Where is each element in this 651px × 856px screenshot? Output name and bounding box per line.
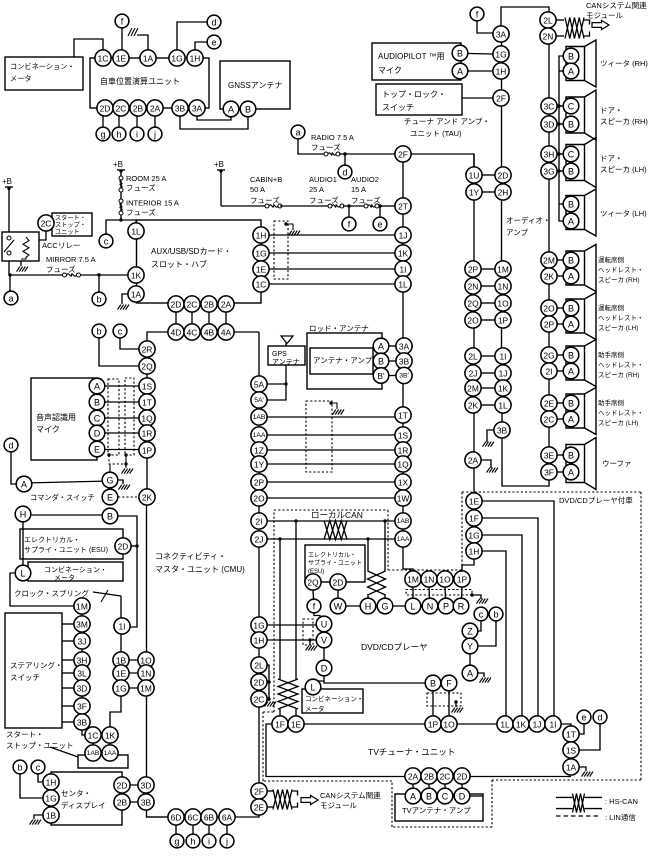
svg-text:A: A — [568, 367, 574, 377]
svg-text:エレクトリカル・: エレクトリカル・ — [24, 536, 80, 544]
svg-text:(ESU): (ESU) — [308, 569, 324, 575]
svg-text:B: B — [568, 52, 574, 62]
svg-text:E: E — [94, 445, 100, 455]
svg-text:1F: 1F — [469, 514, 479, 524]
svg-text:2D: 2D — [171, 300, 182, 310]
svg-text:1Y: 1Y — [469, 188, 480, 198]
svg-text:フューズ: フューズ — [311, 142, 341, 152]
svg-text:D: D — [94, 429, 101, 439]
svg-text:スピーカ (LH): スピーカ (LH) — [598, 419, 638, 427]
svg-text:ツィータ (LH): ツィータ (LH) — [600, 209, 647, 218]
svg-text:1E: 1E — [116, 54, 127, 64]
svg-text:2D: 2D — [117, 781, 128, 791]
svg-text:コンビネーション・: コンビネーション・ — [10, 62, 75, 71]
svg-text:2N: 2N — [543, 32, 554, 42]
svg-text:音声認識用: 音声認識用 — [36, 412, 76, 422]
svg-text:: HS-CAN: : HS-CAN — [605, 797, 638, 806]
svg-text:1Q: 1Q — [397, 460, 409, 470]
svg-text:25 A: 25 A — [309, 185, 324, 194]
svg-text:2B: 2B — [133, 104, 144, 114]
svg-text:B: B — [568, 351, 574, 361]
svg-text:ヘッドレスト・: ヘッドレスト・ — [598, 314, 644, 322]
svg-text:d: d — [342, 168, 347, 178]
svg-text:1AA: 1AA — [253, 432, 266, 439]
svg-text:4C: 4C — [187, 328, 198, 338]
svg-text:チューナ アンド アンプ・: チューナ アンド アンプ・ — [404, 117, 490, 126]
svg-text:3B: 3B — [399, 357, 410, 367]
svg-text:2O: 2O — [543, 304, 555, 314]
svg-text:+B: +B — [2, 177, 12, 186]
svg-text:ストップ・: ストップ・ — [55, 222, 86, 229]
svg-text:1L: 1L — [498, 401, 508, 411]
svg-text:3G: 3G — [543, 167, 554, 177]
svg-text:D: D — [459, 792, 466, 802]
svg-text:1X: 1X — [398, 478, 409, 488]
svg-text:ローカルCAN: ローカルCAN — [311, 510, 363, 520]
svg-text:2I: 2I — [546, 367, 553, 377]
svg-text:1T: 1T — [566, 730, 576, 740]
svg-text:b: b — [17, 763, 22, 773]
svg-text:ユニット (TAU): ユニット (TAU) — [410, 129, 462, 138]
svg-text:A: A — [568, 468, 574, 478]
svg-text:E: E — [107, 493, 113, 503]
svg-text:RADIO 7.5 A: RADIO 7.5 A — [311, 133, 354, 142]
svg-text:2P: 2P — [254, 478, 265, 488]
svg-text:2M: 2M — [543, 256, 555, 266]
svg-text:1G: 1G — [253, 621, 264, 631]
svg-text:メータ: メータ — [54, 573, 75, 582]
svg-text:1K: 1K — [498, 384, 509, 394]
svg-text:3B: 3B — [77, 718, 88, 728]
svg-text:GPS: GPS — [272, 351, 287, 358]
svg-text:1B: 1B — [116, 656, 127, 666]
svg-text:トップ・ロック・: トップ・ロック・ — [382, 90, 446, 99]
svg-text:6D: 6D — [171, 813, 182, 823]
svg-text:MIRROR 7.5 A: MIRROR 7.5 A — [46, 255, 96, 264]
svg-text:3M: 3M — [76, 620, 88, 630]
svg-text:1O: 1O — [497, 299, 509, 309]
svg-text:ユニット: ユニット — [55, 229, 80, 236]
svg-text:50 A: 50 A — [250, 185, 265, 194]
svg-text:2C: 2C — [116, 104, 127, 114]
svg-text:1H: 1H — [256, 231, 267, 241]
svg-text:B: B — [568, 256, 574, 266]
svg-text:助手席側: 助手席側 — [598, 350, 625, 359]
svg-text:2B: 2B — [204, 300, 215, 310]
svg-text:GNSSアンテナ: GNSSアンテナ — [228, 81, 282, 90]
svg-text:2H: 2H — [498, 188, 509, 198]
svg-text:ACCリレー: ACCリレー — [42, 241, 80, 250]
svg-text:1R: 1R — [142, 429, 153, 439]
svg-text:クロック・スプリング: クロック・スプリング — [14, 588, 89, 598]
svg-text:1H: 1H — [46, 778, 57, 788]
svg-text:1I: 1I — [550, 720, 557, 730]
svg-text:B': B' — [377, 371, 385, 381]
svg-text:i: i — [208, 837, 210, 847]
svg-text:3B': 3B' — [399, 373, 409, 380]
svg-text:2L: 2L — [468, 352, 478, 362]
svg-text:1AB: 1AB — [87, 750, 100, 757]
svg-text:N: N — [427, 602, 434, 612]
svg-text:1P: 1P — [428, 720, 439, 730]
svg-text:1E: 1E — [256, 265, 267, 275]
svg-text:1A: 1A — [566, 763, 577, 773]
svg-text:ROOM 25 A: ROOM 25 A — [126, 174, 166, 183]
svg-text:AUX/USB/SDカード・: AUX/USB/SDカード・ — [151, 247, 231, 256]
svg-text:2F: 2F — [398, 150, 408, 160]
svg-text:運転席側: 運転席側 — [598, 303, 625, 312]
svg-text:ドア・: ドア・ — [600, 154, 623, 163]
svg-text:U: U — [321, 620, 328, 630]
svg-text:a: a — [295, 128, 300, 138]
svg-text:1H: 1H — [190, 54, 201, 64]
svg-text:2D: 2D — [333, 578, 344, 588]
svg-text:マスタ・ユニット (CMU): マスタ・ユニット (CMU) — [155, 565, 245, 574]
svg-text:A: A — [568, 217, 574, 227]
svg-text:1P: 1P — [142, 446, 153, 456]
svg-text:1B: 1B — [46, 811, 57, 821]
svg-text:2F: 2F — [496, 94, 506, 104]
svg-text:5A': 5A' — [254, 397, 264, 404]
svg-text:1C: 1C — [256, 280, 267, 290]
svg-text:1K: 1K — [105, 731, 116, 741]
svg-text:1P: 1P — [498, 316, 509, 326]
svg-text:H: H — [365, 602, 372, 612]
svg-text:1E: 1E — [291, 720, 302, 730]
svg-text:スイッチ: スイッチ — [382, 103, 414, 112]
svg-text:スタート・: スタート・ — [6, 730, 44, 739]
svg-text:3A: 3A — [496, 30, 507, 40]
svg-text:A: A — [467, 669, 473, 679]
svg-text:: LIN通信: : LIN通信 — [605, 812, 636, 822]
svg-text:2C: 2C — [187, 300, 198, 310]
svg-text:P: P — [443, 602, 449, 612]
svg-text:3D: 3D — [544, 120, 555, 130]
svg-text:3F: 3F — [544, 468, 554, 478]
svg-text:スピーカ (LH): スピーカ (LH) — [600, 165, 647, 174]
svg-text:1H: 1H — [469, 547, 480, 557]
svg-text:1J: 1J — [499, 369, 508, 379]
svg-text:1K: 1K — [516, 720, 527, 730]
svg-text:4D: 4D — [171, 328, 182, 338]
svg-text:1G: 1G — [255, 249, 266, 259]
svg-text:1W: 1W — [397, 494, 410, 504]
svg-text:3L: 3L — [77, 669, 87, 679]
svg-text:h: h — [116, 130, 121, 140]
svg-text:G: G — [381, 602, 388, 612]
svg-text:1AB: 1AB — [253, 414, 266, 421]
svg-text:2D: 2D — [100, 104, 111, 114]
svg-text:C: C — [442, 792, 449, 802]
svg-text:CABIN+B: CABIN+B — [250, 175, 282, 184]
svg-text:2D: 2D — [457, 772, 468, 782]
svg-text:B: B — [245, 105, 251, 115]
svg-text:1A: 1A — [131, 290, 142, 300]
svg-text:A: A — [21, 480, 27, 490]
svg-text:フューズ: フューズ — [126, 183, 156, 193]
svg-text:2C: 2C — [254, 695, 265, 705]
svg-text:B: B — [568, 167, 574, 177]
svg-text:アンプ: アンプ — [506, 228, 528, 237]
svg-text:2Q: 2Q — [467, 299, 479, 309]
svg-text:g: g — [174, 837, 179, 847]
svg-text:AUDIOPILOT ™用: AUDIOPILOT ™用 — [378, 52, 445, 61]
svg-text:CANシステム関連: CANシステム関連 — [320, 790, 381, 800]
svg-text:b: b — [96, 295, 101, 305]
svg-text:スピーカ (LH): スピーカ (LH) — [598, 324, 638, 332]
svg-text:1R: 1R — [398, 446, 409, 456]
svg-text:スタート・: スタート・ — [55, 214, 86, 222]
svg-text:F: F — [446, 679, 452, 689]
svg-text:2D: 2D — [118, 542, 129, 552]
svg-text:C: C — [568, 102, 575, 112]
svg-text:TVチューナ・ユニット: TVチューナ・ユニット — [368, 747, 455, 757]
svg-text:1O: 1O — [443, 720, 455, 730]
svg-text:2O: 2O — [467, 316, 479, 326]
svg-text:e: e — [211, 38, 216, 48]
svg-text:INTERIOR 15 A: INTERIOR 15 A — [126, 199, 179, 208]
svg-text:b: b — [493, 610, 498, 620]
svg-text:A: A — [568, 320, 574, 330]
svg-text:6A: 6A — [222, 813, 233, 823]
svg-text:c: c — [104, 237, 109, 247]
svg-text:コンビネーション・: コンビネーション・ — [305, 694, 363, 703]
svg-text:A: A — [568, 415, 574, 425]
svg-text:3D: 3D — [141, 781, 152, 791]
svg-text:j: j — [225, 837, 228, 847]
svg-text:ヘッドレスト・: ヘッドレスト・ — [598, 266, 644, 274]
svg-text:1M: 1M — [140, 684, 152, 694]
svg-text:1L: 1L — [398, 280, 408, 290]
svg-text:2Q: 2Q — [141, 362, 153, 372]
svg-text:h: h — [190, 837, 195, 847]
svg-text:1I: 1I — [500, 352, 507, 362]
svg-text:g: g — [100, 130, 105, 140]
svg-text:1G: 1G — [45, 794, 56, 804]
svg-text:L: L — [20, 569, 25, 579]
svg-text:A: A — [228, 105, 234, 115]
svg-text:1N: 1N — [141, 669, 152, 679]
svg-text:1I: 1I — [400, 265, 407, 275]
svg-text:コマンダ・スイッチ: コマンダ・スイッチ — [30, 493, 95, 502]
svg-text:2Q: 2Q — [307, 578, 319, 588]
svg-text:2J: 2J — [255, 535, 264, 545]
svg-text:15 A: 15 A — [351, 185, 366, 194]
svg-text:2C: 2C — [440, 772, 451, 782]
svg-text:1S: 1S — [566, 746, 577, 756]
svg-text:3B: 3B — [497, 426, 508, 436]
svg-text:モジュール: モジュール — [586, 11, 623, 20]
svg-text:2C: 2C — [41, 219, 52, 229]
svg-text:i: i — [136, 130, 138, 140]
svg-text:6C: 6C — [188, 813, 199, 823]
svg-text:A: A — [94, 382, 100, 392]
svg-text:1L: 1L — [131, 227, 141, 237]
svg-text:5A: 5A — [254, 380, 265, 390]
svg-text:1M: 1M — [497, 265, 509, 275]
svg-text:A: A — [568, 272, 574, 282]
svg-text:D: D — [321, 664, 328, 674]
svg-text:スイッチ: スイッチ — [10, 673, 40, 682]
svg-text:マイク: マイク — [378, 66, 402, 75]
svg-text:ロッド・アンテナ: ロッド・アンテナ — [309, 324, 369, 333]
svg-text:1S: 1S — [142, 382, 153, 392]
svg-text:A: A — [568, 67, 574, 77]
svg-text:2K: 2K — [142, 493, 153, 503]
svg-text:2R: 2R — [142, 345, 153, 355]
svg-text:フューズ: フューズ — [250, 195, 280, 205]
svg-text:1M: 1M — [76, 602, 88, 612]
svg-text:アンテナ・アンプ: アンテナ・アンプ — [313, 356, 373, 365]
svg-text:1T: 1T — [398, 411, 408, 421]
svg-text:B: B — [568, 399, 574, 409]
svg-text:2B: 2B — [424, 772, 435, 782]
svg-text:1G: 1G — [468, 531, 479, 541]
svg-text:B: B — [457, 49, 463, 59]
svg-text:2A: 2A — [408, 772, 419, 782]
svg-text:1I: 1I — [119, 622, 126, 632]
svg-text:2B: 2B — [117, 798, 128, 808]
svg-text:1A: 1A — [143, 54, 154, 64]
svg-text:ウーファ: ウーファ — [602, 459, 632, 468]
svg-text:3H: 3H — [544, 150, 555, 160]
svg-text:2M: 2M — [467, 384, 479, 394]
svg-text:1H: 1H — [496, 67, 507, 77]
svg-text:2F: 2F — [254, 787, 264, 797]
svg-text:スピーカ (RH): スピーカ (RH) — [598, 276, 640, 284]
svg-text:1J: 1J — [533, 720, 542, 730]
svg-text:4A: 4A — [221, 328, 232, 338]
svg-text:2G: 2G — [543, 351, 554, 361]
svg-text:ヘッドレスト・: ヘッドレスト・ — [598, 409, 644, 417]
svg-text:CANシステム関連: CANシステム関連 — [586, 0, 647, 10]
svg-text:2D: 2D — [254, 678, 265, 688]
svg-text:センタ・: センタ・ — [61, 789, 91, 798]
svg-text:エレクトリカル・: エレクトリカル・ — [308, 552, 356, 559]
svg-text:2A: 2A — [221, 300, 232, 310]
svg-text:ツィータ (RH): ツィータ (RH) — [600, 59, 648, 68]
svg-text:2P: 2P — [544, 320, 555, 330]
svg-text:B: B — [568, 451, 574, 461]
svg-text:2N: 2N — [468, 282, 479, 292]
svg-text:e: e — [581, 713, 586, 723]
svg-text:3H: 3H — [77, 656, 88, 666]
svg-text:A: A — [457, 67, 463, 77]
svg-text:1T: 1T — [142, 398, 152, 408]
svg-text:6B: 6B — [204, 813, 215, 823]
svg-text:R: R — [458, 602, 465, 612]
svg-text:C: C — [94, 414, 101, 424]
svg-text:オーディオ・: オーディオ・ — [506, 215, 550, 225]
svg-text:サプライ・ユニット: サプライ・ユニット — [308, 560, 362, 567]
svg-text:1O: 1O — [140, 656, 152, 666]
svg-text:1Z: 1Z — [254, 446, 264, 456]
svg-text:3J: 3J — [78, 637, 87, 647]
svg-text:ドア・: ドア・ — [600, 106, 623, 115]
svg-text:運転席側: 運転席側 — [598, 255, 625, 264]
svg-text:2K: 2K — [468, 401, 479, 411]
svg-text:アンテナ: アンテナ — [272, 358, 300, 366]
svg-text:サプライ・ユニット (ESU): サプライ・ユニット (ESU) — [24, 546, 108, 554]
svg-text:A: A — [410, 792, 416, 802]
svg-text:1F: 1F — [275, 720, 285, 730]
svg-text:2C: 2C — [544, 415, 555, 425]
svg-text:B: B — [107, 512, 113, 522]
svg-text:2E: 2E — [254, 803, 265, 813]
svg-text:1J: 1J — [399, 231, 408, 241]
svg-text:メータ: メータ — [10, 74, 32, 83]
svg-text:B: B — [94, 398, 100, 408]
svg-text:c: c — [36, 763, 41, 773]
svg-text:H: H — [20, 510, 27, 520]
svg-text:メータ: メータ — [305, 704, 325, 713]
svg-text:A: A — [378, 342, 384, 352]
svg-text:モジュール: モジュール — [320, 801, 357, 810]
svg-text:2A: 2A — [468, 456, 479, 466]
svg-text:C: C — [568, 150, 575, 160]
svg-text:+B: +B — [113, 160, 123, 169]
svg-text:マイク: マイク — [36, 425, 60, 434]
svg-text:ステアリング・: ステアリング・ — [10, 660, 63, 670]
svg-text:Y: Y — [467, 642, 473, 652]
svg-text:W: W — [334, 602, 343, 612]
svg-text:1AA: 1AA — [397, 536, 410, 543]
svg-text:スピーカ (RH): スピーカ (RH) — [600, 117, 648, 126]
svg-text:j: j — [153, 130, 156, 140]
svg-text:3B: 3B — [175, 104, 186, 114]
svg-text:d: d — [597, 713, 602, 723]
svg-text:2E: 2E — [544, 399, 555, 409]
svg-text:3A: 3A — [192, 104, 203, 114]
svg-text:2T: 2T — [398, 202, 408, 212]
svg-text:B: B — [430, 679, 436, 689]
svg-text:1S: 1S — [398, 431, 409, 441]
svg-text:ストップ・ユニット: ストップ・ユニット — [6, 741, 74, 750]
svg-text:1C: 1C — [98, 54, 109, 64]
svg-text:コネクティビティ・: コネクティビティ・ — [155, 552, 226, 561]
svg-text:1Y: 1Y — [254, 460, 265, 470]
svg-text:1N: 1N — [498, 282, 509, 292]
svg-text:d: d — [211, 18, 216, 28]
svg-text:3F: 3F — [77, 702, 87, 712]
svg-text:1P: 1P — [457, 575, 468, 585]
svg-text:2I: 2I — [256, 517, 263, 527]
svg-text:L: L — [310, 683, 315, 693]
svg-text:c: c — [118, 327, 123, 337]
svg-text:1M: 1M — [407, 575, 419, 585]
svg-text:3A: 3A — [399, 342, 410, 352]
svg-text:フューズ: フューズ — [46, 264, 76, 274]
svg-text:1Q: 1Q — [141, 414, 153, 424]
svg-text:V: V — [321, 636, 327, 646]
svg-text:コンビネーション・: コンビネーション・ — [44, 565, 107, 574]
svg-text:1N: 1N — [424, 575, 435, 585]
svg-text:B: B — [568, 120, 574, 130]
svg-text:ヘッドレスト・: ヘッドレスト・ — [598, 361, 644, 369]
svg-text:2A: 2A — [150, 104, 161, 114]
svg-text:3B: 3B — [141, 798, 152, 808]
svg-text:助手席側: 助手席側 — [598, 398, 625, 407]
svg-text:AUDIO1: AUDIO1 — [309, 175, 337, 184]
svg-text:1U: 1U — [469, 171, 480, 181]
svg-text:1O: 1O — [439, 575, 451, 585]
svg-text:c: c — [479, 610, 484, 620]
svg-text:2L: 2L — [543, 16, 553, 26]
svg-text:4B: 4B — [204, 328, 215, 338]
svg-text:1AA: 1AA — [104, 750, 117, 757]
svg-text:b: b — [96, 327, 101, 337]
svg-text:スピーカ (RH): スピーカ (RH) — [598, 371, 640, 379]
